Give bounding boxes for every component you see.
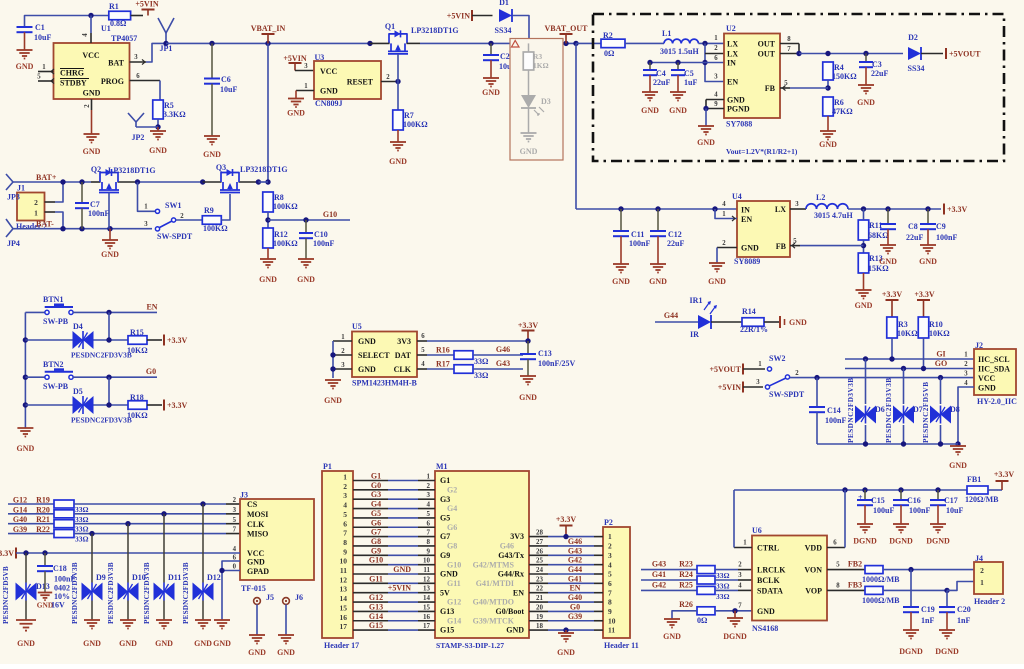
svg-text:4: 4	[964, 380, 968, 387]
svg-text:VCC: VCC	[82, 51, 100, 60]
svg-text:SY8089: SY8089	[734, 257, 760, 266]
svg-text:C6: C6	[221, 75, 231, 84]
svg-text:4: 4	[233, 546, 237, 553]
svg-text:R7: R7	[404, 111, 414, 120]
svg-text:5: 5	[793, 238, 797, 245]
svg-text:D8: D8	[950, 405, 960, 414]
svg-text:R5: R5	[164, 101, 174, 110]
svg-text:22R/1%: 22R/1%	[740, 325, 768, 334]
svg-text:11: 11	[340, 566, 347, 575]
svg-text:R10: R10	[929, 320, 943, 329]
svg-text:GND: GND	[119, 639, 137, 648]
svg-text:21: 21	[536, 594, 544, 602]
svg-text:G44/Rx: G44/Rx	[498, 570, 524, 579]
svg-text:1000Ω/MB: 1000Ω/MB	[862, 596, 900, 605]
svg-text:PROG: PROG	[101, 77, 124, 86]
svg-text:G5: G5	[371, 509, 381, 518]
svg-text:G43: G43	[568, 546, 582, 555]
svg-text:LP3218DT1G: LP3218DT1G	[108, 166, 156, 175]
svg-text:GND: GND	[358, 337, 376, 346]
svg-text:VBAT_IN: VBAT_IN	[251, 24, 286, 33]
svg-text:JP1: JP1	[160, 44, 173, 53]
svg-text:Vout=1.2V*(R1/R2+1): Vout=1.2V*(R1/R2+1)	[726, 147, 798, 156]
svg-text:CLK: CLK	[394, 365, 412, 374]
svg-text:Header 11: Header 11	[604, 641, 639, 650]
svg-text:2: 2	[343, 482, 347, 491]
svg-text:150KΩ: 150KΩ	[832, 72, 857, 81]
svg-text:BAT+: BAT+	[36, 173, 57, 182]
svg-text:10KΩ: 10KΩ	[897, 329, 918, 338]
svg-text:EN: EN	[741, 215, 752, 224]
svg-text:16: 16	[423, 613, 431, 621]
svg-text:+3.3V: +3.3V	[947, 205, 968, 214]
svg-text:4: 4	[738, 582, 742, 589]
svg-text:IR1: IR1	[690, 296, 703, 305]
svg-text:G12: G12	[447, 598, 461, 607]
svg-text:26: 26	[536, 547, 544, 555]
svg-text:7: 7	[343, 529, 347, 538]
svg-text:R1: R1	[109, 2, 119, 11]
svg-text:D1: D1	[499, 0, 509, 7]
svg-text:1: 1	[980, 578, 984, 587]
svg-text:G41: G41	[568, 574, 582, 583]
svg-text:47KΩ: 47KΩ	[832, 107, 853, 116]
svg-text:GND: GND	[393, 565, 411, 574]
svg-text:5: 5	[608, 570, 612, 579]
svg-text:+3.3V: +3.3V	[0, 549, 14, 558]
svg-text:17: 17	[423, 622, 431, 630]
svg-text:G8: G8	[447, 542, 457, 551]
svg-text:GND: GND	[741, 244, 759, 253]
svg-text:P2: P2	[604, 518, 613, 527]
svg-text:3: 3	[343, 491, 347, 500]
svg-text:G46: G46	[500, 542, 514, 551]
svg-text:GND: GND	[641, 106, 659, 115]
svg-text:SY7088: SY7088	[726, 120, 752, 129]
svg-text:LP3218DT1G: LP3218DT1G	[240, 165, 288, 174]
svg-text:GND: GND	[857, 98, 875, 107]
svg-text:28: 28	[536, 529, 544, 537]
svg-text:R23: R23	[679, 560, 693, 569]
svg-text:L2: L2	[816, 193, 825, 202]
svg-text:Q2: Q2	[91, 165, 101, 174]
svg-text:+5VIN: +5VIN	[135, 0, 158, 9]
svg-text:+: +	[858, 493, 863, 502]
svg-text:PESDNC2FD3V3B: PESDNC2FD3V3B	[847, 377, 855, 443]
svg-text:G4: G4	[371, 500, 381, 509]
svg-text:1: 1	[427, 473, 431, 481]
svg-text:TP4057: TP4057	[111, 34, 137, 43]
svg-text:100KΩ: 100KΩ	[273, 202, 298, 211]
svg-text:33Ω: 33Ω	[75, 515, 89, 524]
svg-text:C14: C14	[827, 406, 841, 415]
svg-text:BAT: BAT	[108, 59, 125, 68]
svg-text:R24: R24	[679, 570, 693, 579]
svg-text:3V3: 3V3	[510, 532, 524, 541]
svg-text:GND: GND	[203, 150, 221, 159]
svg-text:5: 5	[784, 80, 788, 87]
svg-text:22uF: 22uF	[667, 239, 684, 248]
svg-text:4: 4	[608, 560, 612, 569]
svg-text:C10: C10	[314, 230, 328, 239]
svg-text:10uF: 10uF	[220, 85, 237, 94]
svg-text:M1: M1	[436, 462, 448, 471]
svg-text:R3: R3	[898, 320, 908, 329]
svg-text:P1: P1	[323, 462, 332, 471]
svg-text:7: 7	[233, 527, 237, 534]
svg-text:8: 8	[343, 538, 347, 547]
svg-text:8: 8	[836, 582, 840, 589]
svg-text:10KΩ: 10KΩ	[929, 329, 950, 338]
svg-text:3: 3	[608, 551, 612, 560]
svg-text:MOSI: MOSI	[247, 510, 268, 519]
svg-text:+3.3V: +3.3V	[167, 401, 188, 410]
svg-text:VDD: VDD	[805, 544, 823, 553]
svg-text:JP3: JP3	[7, 193, 20, 202]
svg-text:22uF: 22uF	[871, 69, 888, 78]
svg-text:G6: G6	[371, 518, 381, 527]
svg-text:1: 1	[964, 352, 968, 359]
svg-text:R12: R12	[274, 230, 288, 239]
svg-text:OUT: OUT	[758, 40, 776, 49]
svg-text:7: 7	[608, 588, 612, 597]
svg-text:+3.3V: +3.3V	[556, 515, 577, 524]
svg-text:BCLK: BCLK	[757, 576, 780, 585]
svg-text:G2: G2	[447, 485, 457, 494]
svg-text:G46: G46	[568, 537, 582, 546]
svg-text:G13: G13	[369, 602, 383, 611]
svg-text:SW-PB: SW-PB	[43, 317, 69, 326]
svg-text:3: 3	[964, 371, 968, 378]
svg-text:R26: R26	[679, 600, 693, 609]
svg-text:33Ω: 33Ω	[716, 571, 730, 580]
svg-text:120Ω/MB: 120Ω/MB	[965, 495, 999, 504]
svg-text:10: 10	[608, 616, 616, 625]
svg-text:5: 5	[427, 510, 431, 518]
svg-text:+3.3V: +3.3V	[994, 470, 1015, 479]
svg-text:G1: G1	[440, 476, 450, 485]
svg-text:L1: L1	[662, 29, 671, 38]
svg-text:PESDNC2FD3V3B: PESDNC2FD3V3B	[107, 562, 115, 624]
svg-text:C15: C15	[871, 496, 885, 505]
svg-text:3: 3	[795, 201, 799, 208]
svg-text:NS4168: NS4168	[752, 624, 778, 633]
svg-text:IR: IR	[690, 330, 699, 339]
svg-text:G39: G39	[13, 525, 27, 534]
svg-text:G6: G6	[447, 523, 457, 532]
svg-text:5: 5	[343, 510, 347, 519]
svg-text:G3: G3	[371, 490, 381, 499]
svg-text:4: 4	[82, 33, 89, 37]
svg-text:CHRG: CHRG	[60, 69, 84, 78]
svg-text:IN: IN	[727, 59, 736, 68]
svg-text:G43/Tx: G43/Tx	[498, 551, 524, 560]
svg-text:1uF: 1uF	[684, 78, 697, 87]
svg-text:33Ω: 33Ω	[75, 505, 89, 514]
svg-text:23: 23	[536, 575, 544, 583]
svg-text:C9: C9	[936, 222, 946, 231]
svg-text:EN: EN	[513, 588, 524, 597]
svg-text:33Ω: 33Ω	[474, 371, 489, 380]
svg-text:+3.3V: +3.3V	[882, 290, 903, 299]
svg-text:C16: C16	[907, 496, 921, 505]
svg-text:11: 11	[423, 566, 430, 574]
svg-text:MISO: MISO	[247, 530, 268, 539]
svg-text:IIC_SCL: IIC_SCL	[978, 355, 1010, 364]
svg-text:GND: GND	[16, 62, 34, 71]
svg-text:GPAD: GPAD	[247, 567, 269, 576]
svg-text:3V3: 3V3	[397, 337, 411, 346]
svg-text:5: 5	[233, 517, 237, 524]
svg-text:G12: G12	[13, 496, 27, 505]
svg-text:1: 1	[304, 83, 308, 90]
svg-text:SW-PB: SW-PB	[43, 382, 69, 391]
svg-text:25: 25	[536, 557, 544, 565]
svg-text:G40/MTDO: G40/MTDO	[473, 598, 514, 607]
svg-text:PESDNC2FD3V3B: PESDNC2FD3V3B	[182, 562, 190, 624]
svg-text:C12: C12	[668, 230, 682, 239]
svg-text:VCC: VCC	[978, 374, 996, 383]
svg-text:5V: 5V	[440, 588, 450, 597]
svg-text:PESDNC2FD3V3B: PESDNC2FD3V3B	[885, 377, 893, 443]
svg-text:0Ω: 0Ω	[697, 616, 708, 625]
svg-text:+3.3V: +3.3V	[914, 290, 935, 299]
svg-text:1: 1	[714, 35, 718, 42]
svg-text:2: 2	[341, 348, 345, 355]
svg-text:GND: GND	[557, 648, 575, 657]
svg-text:HY-2.0_IIC: HY-2.0_IIC	[977, 397, 1017, 406]
svg-text:Header 17: Header 17	[324, 641, 359, 650]
svg-text:G41: G41	[652, 570, 666, 579]
svg-text:R25: R25	[679, 580, 693, 589]
svg-text:GND: GND	[506, 626, 524, 635]
svg-text:1: 1	[608, 532, 612, 541]
svg-text:G40: G40	[568, 593, 582, 602]
svg-text:VON: VON	[804, 566, 822, 575]
svg-text:PESDNC2FD3V3B: PESDNC2FD3V3B	[71, 562, 79, 624]
svg-text:GO: GO	[935, 359, 947, 368]
svg-text:3: 3	[427, 491, 431, 499]
svg-text:6: 6	[427, 519, 431, 527]
svg-text:16V: 16V	[51, 601, 65, 610]
svg-text:GND: GND	[649, 277, 667, 286]
svg-text:DAT: DAT	[395, 351, 412, 360]
svg-text:GND: GND	[612, 277, 630, 286]
svg-text:FB: FB	[765, 84, 776, 93]
svg-text:GND: GND	[879, 257, 897, 266]
svg-text:G39: G39	[568, 612, 582, 621]
svg-text:2: 2	[714, 45, 718, 52]
svg-text:Q3: Q3	[216, 163, 226, 172]
svg-text:+5VOUT: +5VOUT	[709, 365, 741, 374]
svg-text:C13: C13	[538, 349, 552, 358]
svg-text:9: 9	[427, 547, 431, 555]
svg-text:6: 6	[343, 519, 347, 528]
svg-text:G0: G0	[371, 481, 381, 490]
svg-text:SW2: SW2	[769, 354, 785, 363]
svg-text:2: 2	[233, 497, 237, 504]
svg-text:D9: D9	[96, 573, 106, 582]
svg-text:R21: R21	[36, 515, 50, 524]
svg-text:GI: GI	[936, 350, 945, 359]
svg-text:GND: GND	[819, 140, 837, 149]
svg-text:DGND: DGND	[723, 632, 747, 641]
svg-text:9: 9	[608, 607, 612, 616]
svg-text:100uF: 100uF	[873, 506, 894, 515]
svg-text:R6: R6	[834, 98, 844, 107]
svg-text:C3: C3	[872, 60, 882, 69]
svg-text:JP2: JP2	[132, 133, 145, 142]
svg-text:PESDNC2FD5VB: PESDNC2FD5VB	[922, 381, 930, 443]
svg-text:BTN1: BTN1	[43, 295, 63, 304]
svg-text:G40: G40	[13, 515, 27, 524]
svg-text:GND: GND	[213, 639, 231, 648]
svg-text:J6: J6	[295, 593, 303, 602]
svg-text:100nF: 100nF	[629, 239, 650, 248]
svg-text:PGND: PGND	[727, 105, 750, 114]
svg-text:33Ω: 33Ω	[75, 525, 89, 534]
svg-text:17: 17	[340, 622, 348, 631]
svg-text:FB2: FB2	[848, 560, 862, 569]
svg-text:1: 1	[42, 64, 46, 71]
svg-text:GND: GND	[978, 384, 996, 393]
svg-text:SPM1423HM4H-B: SPM1423HM4H-B	[352, 379, 418, 388]
svg-text:2: 2	[386, 74, 390, 81]
svg-text:GND: GND	[17, 444, 35, 453]
svg-text:G41/MTDI: G41/MTDI	[476, 579, 514, 588]
svg-text:G15: G15	[440, 626, 454, 635]
svg-text:R18: R18	[130, 393, 144, 402]
svg-text:G0: G0	[570, 602, 580, 611]
svg-text:GND: GND	[519, 393, 537, 402]
svg-text:7: 7	[427, 529, 431, 537]
svg-text:10uF: 10uF	[34, 33, 51, 42]
svg-text:GND: GND	[727, 96, 745, 105]
svg-text:GND: GND	[482, 88, 500, 97]
svg-text:GND: GND	[287, 109, 305, 118]
svg-text:1nF: 1nF	[921, 616, 934, 625]
svg-text:EN: EN	[569, 584, 580, 593]
svg-text:2: 2	[180, 213, 184, 220]
svg-text:D12: D12	[207, 573, 221, 582]
svg-text:C1: C1	[35, 23, 45, 32]
svg-text:+3.3V: +3.3V	[518, 321, 539, 330]
svg-text:6: 6	[608, 579, 612, 588]
svg-text:G1: G1	[371, 472, 381, 481]
svg-text:G46: G46	[496, 345, 510, 354]
svg-text:DGND: DGND	[853, 537, 877, 546]
svg-text:2: 2	[84, 104, 91, 108]
svg-text:GND: GND	[155, 639, 173, 648]
svg-text:Q1: Q1	[385, 22, 395, 31]
svg-text:14: 14	[340, 594, 348, 603]
svg-text:G10: G10	[369, 556, 383, 565]
svg-text:22uF: 22uF	[653, 78, 670, 87]
svg-text:G39/MTCK: G39/MTCK	[473, 616, 515, 625]
svg-text:G7: G7	[371, 528, 381, 537]
svg-text:D13: D13	[36, 582, 50, 591]
svg-text:5: 5	[421, 347, 425, 354]
svg-text:1nF: 1nF	[957, 616, 970, 625]
svg-text:3015 1.5uH: 3015 1.5uH	[660, 47, 699, 56]
svg-text:R3: R3	[533, 52, 542, 61]
svg-text:C5: C5	[684, 69, 694, 78]
svg-text:100nF: 100nF	[936, 233, 957, 242]
svg-text:100nF: 100nF	[909, 506, 930, 515]
svg-text:EN: EN	[727, 78, 738, 87]
svg-text:GND: GND	[247, 558, 265, 567]
svg-text:GND: GND	[259, 275, 277, 284]
svg-text:3: 3	[304, 63, 308, 70]
svg-text:GND: GND	[320, 87, 338, 96]
svg-text:3.3KΩ: 3.3KΩ	[163, 110, 186, 119]
svg-text:R19: R19	[36, 496, 50, 505]
svg-text:CTRL: CTRL	[757, 544, 779, 553]
svg-text:1: 1	[743, 540, 747, 547]
svg-text:3: 3	[714, 74, 718, 81]
svg-text:2: 2	[34, 198, 38, 207]
svg-text:6: 6	[421, 333, 425, 340]
svg-text:LX: LX	[775, 205, 786, 214]
svg-text:G11: G11	[447, 579, 461, 588]
svg-text:+3.3V: +3.3V	[167, 336, 188, 345]
svg-text:C19: C19	[921, 605, 935, 614]
svg-text:G13: G13	[440, 607, 454, 616]
svg-text:G14: G14	[447, 616, 461, 625]
svg-text:10: 10	[340, 557, 348, 566]
svg-text:D3: D3	[541, 97, 551, 106]
svg-text:C17: C17	[944, 496, 958, 505]
svg-text:13: 13	[423, 585, 431, 593]
svg-text:18: 18	[536, 622, 544, 630]
svg-text:15: 15	[423, 603, 431, 611]
svg-text:G44: G44	[664, 311, 678, 320]
svg-text:FB: FB	[776, 242, 787, 251]
svg-text:SS34: SS34	[495, 26, 512, 35]
svg-text:22uF: 22uF	[906, 233, 923, 242]
svg-text:G8: G8	[371, 537, 381, 546]
svg-text:SW-SPDT: SW-SPDT	[769, 390, 805, 399]
svg-text:7: 7	[787, 46, 791, 53]
svg-text:DGND: DGND	[926, 537, 950, 546]
svg-text:J1: J1	[17, 184, 25, 193]
svg-text:G9: G9	[371, 546, 381, 555]
svg-text:+5VIN: +5VIN	[283, 54, 306, 63]
svg-text:G4: G4	[447, 504, 457, 513]
svg-text:VOP: VOP	[805, 586, 822, 595]
svg-text:13: 13	[340, 585, 348, 594]
svg-text:R14: R14	[742, 307, 756, 316]
svg-text:D2: D2	[908, 33, 918, 42]
svg-text:D6: D6	[875, 405, 885, 414]
svg-text:PESDNC2FD3V3B: PESDNC2FD3V3B	[143, 562, 151, 624]
svg-text:C18: C18	[53, 564, 67, 573]
svg-text:R8: R8	[274, 193, 284, 202]
svg-text:27: 27	[536, 538, 544, 546]
svg-text:GND: GND	[194, 639, 212, 648]
svg-text:3: 3	[134, 54, 138, 61]
svg-text:U3: U3	[315, 53, 325, 62]
svg-text:2: 2	[964, 361, 968, 368]
svg-text:3: 3	[233, 507, 237, 514]
svg-text:33Ω: 33Ω	[474, 357, 489, 366]
svg-text:GND: GND	[663, 632, 681, 641]
svg-text:15: 15	[340, 603, 348, 612]
svg-text:1: 1	[343, 473, 347, 482]
svg-text:2: 2	[427, 482, 431, 490]
svg-text:STDBY: STDBY	[60, 79, 87, 88]
svg-text:GND: GND	[440, 570, 458, 579]
